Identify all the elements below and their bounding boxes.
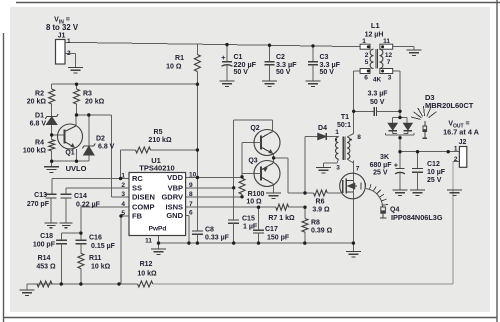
svg-text:D4: D4 xyxy=(318,125,327,132)
svg-text:+: + xyxy=(394,162,398,169)
svg-text:J1: J1 xyxy=(58,33,66,40)
svg-text:3.3 µF: 3.3 µF xyxy=(276,60,297,69)
svg-text:5: 5 xyxy=(365,59,369,66)
svg-text:IPP084N06L3G: IPP084N06L3G xyxy=(391,213,443,222)
svg-text:1 µF: 1 µF xyxy=(243,224,258,231)
svg-text:R1: R1 xyxy=(175,55,184,62)
svg-text:C13: C13 xyxy=(34,192,47,199)
svg-text:R6: R6 xyxy=(316,199,325,206)
svg-text:R7 1 kΩ: R7 1 kΩ xyxy=(268,215,295,222)
svg-text:R12: R12 xyxy=(140,261,153,268)
svg-text:11: 11 xyxy=(145,238,152,245)
svg-text:25 V: 25 V xyxy=(427,177,442,184)
svg-text:12 µH: 12 µH xyxy=(365,32,384,39)
svg-text:0.39 Ω: 0.39 Ω xyxy=(311,228,333,235)
svg-text:D2: D2 xyxy=(96,136,105,143)
svg-text:3.3 µF: 3.3 µF xyxy=(368,91,389,98)
svg-text:1: 1 xyxy=(335,129,339,136)
svg-text:270 pF: 270 pF xyxy=(27,201,50,208)
svg-text:2: 2 xyxy=(121,182,125,189)
svg-text:R14: R14 xyxy=(38,255,51,262)
svg-text:20 kΩ: 20 kΩ xyxy=(27,99,47,106)
svg-text:R2: R2 xyxy=(35,91,44,98)
svg-text:6: 6 xyxy=(364,75,368,82)
svg-text:SS: SS xyxy=(132,183,142,192)
svg-text:R4: R4 xyxy=(35,140,44,147)
svg-text:4K: 4K xyxy=(373,77,382,84)
svg-text:100 kΩ: 100 kΩ xyxy=(23,148,47,155)
svg-text:2: 2 xyxy=(454,156,458,163)
svg-text:PwPd: PwPd xyxy=(149,226,167,233)
svg-text:10 Ω: 10 Ω xyxy=(166,64,182,71)
svg-text:3.3 µF: 3.3 µF xyxy=(320,60,341,69)
svg-text:0.33 µF: 0.33 µF xyxy=(205,235,230,242)
svg-text:12: 12 xyxy=(385,52,393,59)
svg-text:R3: R3 xyxy=(83,91,92,98)
svg-text:3K: 3K xyxy=(380,154,389,161)
svg-text:7: 7 xyxy=(356,166,360,173)
svg-text:4: 4 xyxy=(121,201,125,208)
svg-text:6.8 V: 6.8 V xyxy=(30,121,47,128)
svg-text:3.9 Ω: 3.9 Ω xyxy=(312,206,330,213)
svg-text:VDD: VDD xyxy=(167,173,183,182)
svg-text:680 µF: 680 µF xyxy=(370,162,393,169)
svg-text:16.7 at 4 A: 16.7 at 4 A xyxy=(443,127,480,136)
svg-text:20 kΩ: 20 kΩ xyxy=(85,99,105,106)
svg-text:FB: FB xyxy=(132,212,143,221)
svg-text:8: 8 xyxy=(189,191,193,198)
svg-text:50 V: 50 V xyxy=(320,69,335,76)
svg-text:Q2: Q2 xyxy=(250,125,259,132)
svg-text:T1: T1 xyxy=(341,114,349,121)
svg-text:RC: RC xyxy=(132,174,143,183)
svg-text:453 Ω: 453 Ω xyxy=(36,264,56,271)
svg-text:3: 3 xyxy=(121,191,125,198)
svg-text:3: 3 xyxy=(336,165,340,172)
svg-text:11: 11 xyxy=(383,38,390,45)
svg-text:Q1: Q1 xyxy=(65,150,74,157)
svg-text:1: 1 xyxy=(67,38,71,45)
svg-text:50 V: 50 V xyxy=(276,69,291,76)
svg-text:L1: L1 xyxy=(371,21,380,30)
svg-text:5: 5 xyxy=(121,210,125,217)
svg-text:R5: R5 xyxy=(154,129,163,136)
svg-text:50 V: 50 V xyxy=(370,99,385,106)
svg-text:VBP: VBP xyxy=(168,183,183,192)
svg-text:7: 7 xyxy=(189,201,193,208)
svg-text:UVLO: UVLO xyxy=(66,164,87,173)
svg-text:10 Ω: 10 Ω xyxy=(246,198,262,205)
svg-text:25 V: 25 V xyxy=(373,170,388,177)
svg-text:MBR20L60CT: MBR20L60CT xyxy=(425,101,474,110)
svg-text:+: + xyxy=(221,53,226,62)
svg-text:210 kΩ: 210 kΩ xyxy=(148,137,172,144)
svg-text:6: 6 xyxy=(189,210,193,217)
svg-text:10 µF: 10 µF xyxy=(427,169,446,176)
svg-text:COMP: COMP xyxy=(132,203,155,212)
svg-text:100 pF: 100 pF xyxy=(33,242,56,249)
svg-text:6.8 V: 6.8 V xyxy=(98,144,115,151)
svg-text:50 V: 50 V xyxy=(234,69,249,76)
svg-text:C16: C16 xyxy=(89,235,102,242)
svg-text:50:1: 50:1 xyxy=(337,122,351,129)
svg-text:8 to 32 V: 8 to 32 V xyxy=(46,23,79,32)
svg-text:C17: C17 xyxy=(265,226,278,233)
svg-text:R8: R8 xyxy=(311,220,320,227)
svg-text:8: 8 xyxy=(357,134,361,141)
svg-text:0.22 µF: 0.22 µF xyxy=(76,202,101,209)
svg-text:2: 2 xyxy=(67,50,71,57)
svg-text:1: 1 xyxy=(121,173,125,180)
svg-text:7: 7 xyxy=(387,59,391,66)
svg-text:1: 1 xyxy=(454,146,458,153)
svg-text:10: 10 xyxy=(189,172,197,179)
svg-text:D1: D1 xyxy=(35,113,44,120)
svg-text:GDRV: GDRV xyxy=(161,192,183,201)
svg-text:C15: C15 xyxy=(242,216,255,223)
svg-text:J2: J2 xyxy=(459,139,467,146)
svg-text:2: 2 xyxy=(365,52,369,59)
svg-text:DISEN: DISEN xyxy=(132,192,155,201)
svg-text:R11: R11 xyxy=(89,255,102,262)
svg-text:10 kΩ: 10 kΩ xyxy=(137,271,157,278)
svg-text:9: 9 xyxy=(189,182,193,189)
svg-text:GND: GND xyxy=(166,211,183,220)
svg-text:Q3: Q3 xyxy=(248,158,257,165)
svg-text:TPS40210: TPS40210 xyxy=(139,164,174,173)
svg-text:150 pF: 150 pF xyxy=(267,235,290,242)
svg-text:R100: R100 xyxy=(248,191,265,198)
svg-text:1: 1 xyxy=(362,38,366,45)
svg-text:C8: C8 xyxy=(205,227,214,234)
svg-text:C18: C18 xyxy=(40,233,53,240)
svg-text:220 µF: 220 µF xyxy=(234,60,257,69)
svg-text:0.15 µF: 0.15 µF xyxy=(91,243,116,250)
svg-text:10 kΩ: 10 kΩ xyxy=(91,264,111,271)
svg-text:C14: C14 xyxy=(74,193,87,200)
svg-text:C12: C12 xyxy=(427,161,440,168)
svg-text:3: 3 xyxy=(388,75,392,82)
